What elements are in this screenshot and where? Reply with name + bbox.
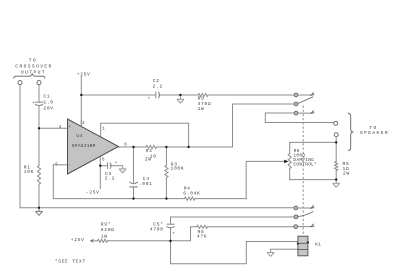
svg-text:OPA541BM: OPA541BM <box>72 143 96 149</box>
svg-text:C1: C1 <box>43 93 50 99</box>
svg-text:SPEAKER: SPEAKER <box>360 130 389 136</box>
svg-text:U4: U4 <box>76 133 83 139</box>
svg-text:6: 6 <box>102 159 105 163</box>
svg-text:3: 3 <box>82 122 85 126</box>
svg-text:CROSSOVER: CROSSOVER <box>15 63 52 69</box>
svg-text:6.04K: 6.04K <box>183 190 200 196</box>
svg-text:+: + <box>148 97 151 101</box>
svg-text:+: + <box>172 232 175 236</box>
svg-text:4700: 4700 <box>150 226 164 232</box>
svg-text:20V: 20V <box>43 105 53 111</box>
svg-text:820Ω: 820Ω <box>101 227 115 233</box>
svg-text:10K: 10K <box>24 169 34 175</box>
svg-text:+25V: +25V <box>71 237 85 243</box>
svg-text:-25V: -25V <box>86 190 100 196</box>
svg-text:R9*: R9* <box>101 221 111 227</box>
svg-text:-: - <box>68 164 71 168</box>
svg-text:1.0: 1.0 <box>43 99 53 105</box>
svg-text:100K: 100K <box>171 166 185 172</box>
svg-text:CONTROL*: CONTROL* <box>293 162 317 168</box>
svg-text:2W: 2W <box>343 171 350 177</box>
svg-text:*SEE TEXT: *SEE TEXT <box>55 258 86 264</box>
svg-text:R2: R2 <box>146 148 153 154</box>
svg-text:5: 5 <box>55 163 58 167</box>
svg-text:2.2: 2.2 <box>153 84 163 90</box>
svg-text:TO: TO <box>29 57 37 63</box>
svg-text:R9: R9 <box>198 95 205 101</box>
svg-text:470Ω: 470Ω <box>198 101 212 107</box>
svg-text:C5*: C5* <box>153 221 163 227</box>
svg-text:2W: 2W <box>145 157 152 163</box>
svg-text:2.2: 2.2 <box>105 175 115 181</box>
svg-text:47K: 47K <box>197 233 207 239</box>
svg-text:OUTPUT: OUTPUT <box>21 69 46 75</box>
svg-text:1W: 1W <box>101 233 108 239</box>
svg-text:.001: .001 <box>139 181 153 187</box>
svg-text:1: 1 <box>102 128 105 132</box>
svg-text:1W: 1W <box>198 106 205 112</box>
svg-text:C2: C2 <box>153 78 160 84</box>
svg-text:K1: K1 <box>315 241 321 247</box>
svg-text:+25V: +25V <box>77 72 91 78</box>
